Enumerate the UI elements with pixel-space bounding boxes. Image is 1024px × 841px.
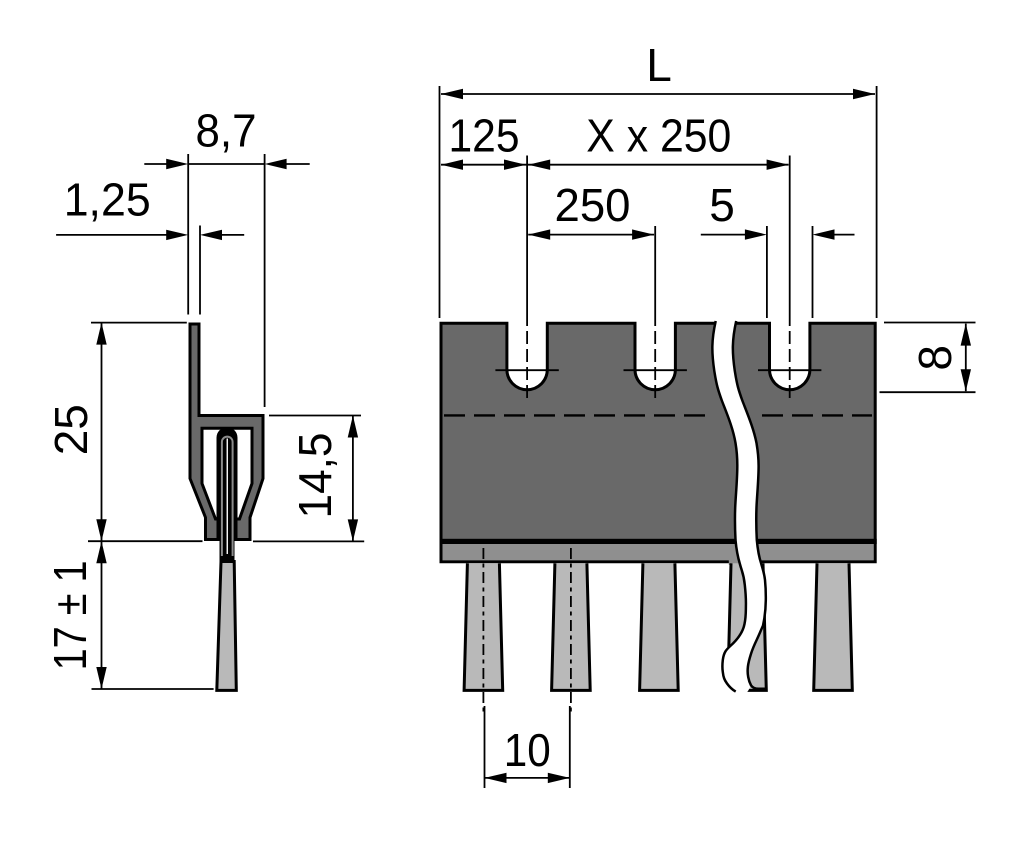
dimension 5 (slot width) (701, 179, 855, 318)
slot 1 center marks (495, 313, 558, 402)
slot 3 center marks (758, 313, 821, 402)
tuft 3 (640, 563, 679, 690)
tuft 2 (552, 548, 591, 712)
wavy break line band (712, 321, 765, 696)
svg-text:5: 5 (709, 179, 735, 231)
svg-text:25: 25 (45, 404, 97, 455)
svg-text:10: 10 (504, 724, 551, 776)
svg-text:X x 250: X x 250 (586, 110, 731, 162)
dimension L (total length) (440, 39, 877, 318)
svg-text:8,7: 8,7 (196, 105, 257, 157)
tuft 1 (464, 548, 503, 712)
svg-text:1,25: 1,25 (64, 174, 151, 226)
svg-text:L: L (646, 39, 672, 91)
svg-text:17 ± 1: 17 ± 1 (44, 560, 96, 670)
body: brush strip front view with mounting slots (441, 323, 875, 562)
profile body: brush-carrier cross-section (left view) (190, 324, 263, 540)
lip strip (clamping lip below body) (440, 539, 877, 565)
slot 2 center marks (624, 313, 687, 402)
hidden dashed line through body (444, 414, 872, 416)
dimension X x 250 (slot pitch span) (527, 110, 790, 314)
dimension 8 (slot depth) (880, 323, 976, 393)
dimension 17 +/- 1 (free fibre length) (44, 541, 214, 689)
dimension 8,7 (profile overall width) (144, 105, 309, 408)
brush clamp channel with folded fibre strip (217, 427, 238, 562)
svg-text:8: 8 (909, 345, 961, 371)
svg-text:250: 250 (555, 179, 631, 231)
dimension 25 (profile height) (45, 323, 203, 689)
tuft 4 (interrupted by break line) (728, 563, 767, 690)
dimension 14,5 (channel depth) (253, 416, 364, 542)
svg-text:125: 125 (449, 110, 520, 162)
dimension 1,25 (wall thickness) (56, 174, 244, 315)
brush tuft (left view, below profile) (217, 562, 237, 691)
dimension 250 (slot spacing) (528, 179, 655, 313)
tuft 5 (814, 563, 853, 690)
svg-text:14,5: 14,5 (289, 433, 341, 519)
dimension 125 (end distance) (441, 110, 527, 314)
dimension 10 (tuft spacing) (485, 706, 570, 788)
